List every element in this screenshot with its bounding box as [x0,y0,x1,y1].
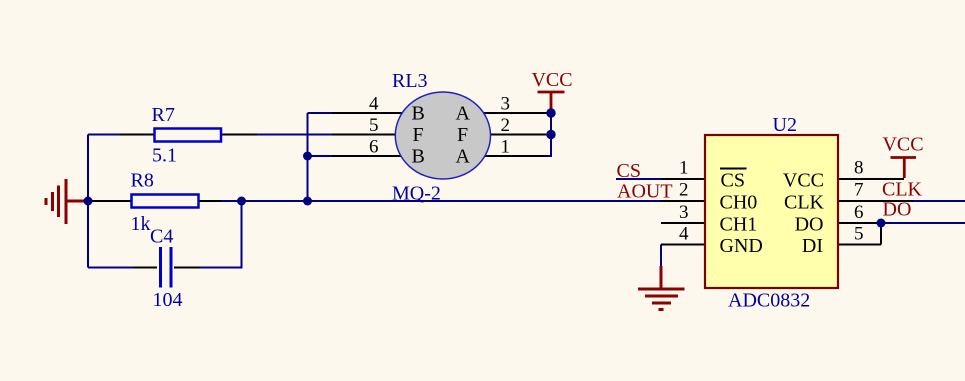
resistor R7 pins [120,134,257,136]
IC U2 body ADC0832 [705,135,838,288]
svg-text:DI: DI [802,235,823,257]
wire MQ2 B-pins vertical [307,113,309,201]
svg-text:VCC: VCC [783,170,824,192]
svg-text:U2: U2 [773,114,797,136]
svg-text:B: B [412,146,425,168]
svg-text:CH1: CH1 [720,214,758,236]
svg-text:6: 6 [369,137,379,158]
capacitor C4 pins [133,267,200,269]
wire DO net [881,222,965,224]
svg-text:MQ-2: MQ-2 [392,183,441,205]
resistor R7 body [155,129,222,142]
wire pin4 stub [308,112,333,114]
ADC right pins 8 7 6 5 [838,179,913,245]
svg-text:A: A [456,103,471,125]
junction node AOUT [303,197,312,206]
svg-text:VCC: VCC [882,134,923,156]
junction node ground-R8 [84,197,93,206]
ground bottom symbol [638,266,685,310]
wire MQ2 right vertical [550,113,552,156]
power VCC symbol left [531,69,572,112]
junction node pin3 VCC [546,108,555,117]
svg-text:1: 1 [679,158,689,179]
junction node R8-C4 [237,197,246,206]
capacitor C4 plates [161,247,172,288]
junction node pin6 [303,152,312,161]
junction node pin2 [546,130,555,139]
wire CLK net [913,200,965,202]
wire R7 left [88,134,120,136]
svg-text:CS: CS [721,170,745,192]
svg-text:6: 6 [854,202,864,223]
svg-text:DO: DO [795,214,824,236]
power VCC symbol right [882,134,923,179]
svg-text:A: A [456,146,471,168]
wire DI vertical [880,223,882,245]
svg-text:2: 2 [679,180,689,201]
wire CS net [616,178,661,180]
resistor R8 body [132,195,199,208]
svg-text:F: F [413,124,424,146]
svg-text:5.1: 5.1 [152,145,177,167]
resistor R8 pins [89,200,221,202]
wire pin2 stub [547,134,551,136]
sensor RL3 MQ-2 body [395,92,490,179]
svg-text:2: 2 [501,115,511,136]
svg-text:3: 3 [501,94,511,115]
MQ2 right pins 3 2 1 [465,113,547,156]
svg-text:F: F [457,124,468,146]
svg-text:7: 7 [854,180,864,201]
wire C4 left [88,267,140,269]
svg-text:5: 5 [369,115,379,136]
wire ADC GND corner [660,245,662,269]
wire AOUT R8 to ADC CH0 [221,200,661,202]
svg-text:C4: C4 [150,226,173,248]
svg-text:B: B [412,103,425,125]
svg-text:CS: CS [617,160,641,182]
wire R7 to F pin [257,134,332,136]
svg-text:ADC0832: ADC0832 [728,290,810,312]
svg-text:1k: 1k [131,213,151,235]
ground left symbol [46,179,85,224]
svg-text:CLK: CLK [882,179,923,201]
svg-text:3: 3 [679,202,689,223]
svg-text:R7: R7 [152,104,175,126]
svg-text:CLK: CLK [784,192,825,214]
wire pin3 stub [547,112,551,114]
wire pin1 stub [547,155,552,157]
wire pin6 stub [308,155,333,157]
svg-text:AOUT: AOUT [617,181,673,203]
svg-text:CH0: CH0 [720,192,758,214]
svg-text:R8: R8 [131,170,154,192]
ADC left pins 1 2 3 4 [661,179,704,245]
wire C4 right up to AOUT node [200,201,242,268]
svg-text:RL3: RL3 [392,70,428,92]
svg-text:DO: DO [883,199,912,221]
junction node DO [877,219,886,228]
svg-text:5: 5 [854,224,864,245]
svg-text:GND: GND [720,235,763,257]
svg-text:1: 1 [501,137,511,158]
svg-text:4: 4 [369,94,379,115]
svg-text:8: 8 [854,158,864,179]
svg-text:VCC: VCC [531,69,572,91]
svg-text:4: 4 [679,224,689,245]
svg-text:104: 104 [153,289,183,311]
MQ2 left pins 4 5 6 [332,113,420,156]
wire left vertical R7 to C4 [87,135,89,268]
